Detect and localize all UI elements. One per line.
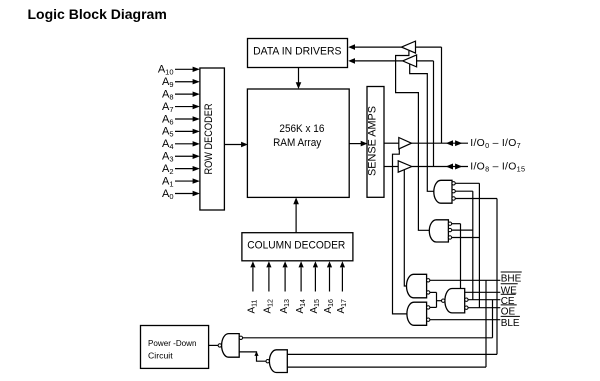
label OE active-low [501,305,517,318]
block Power-Down Circuit [141,326,209,369]
svg-text:Circuit: Circuit [148,351,173,361]
wire arrow DATA IN DRIVERS to RAM [296,68,302,90]
gate U3 2-input inverted-input AND [407,274,430,298]
title Logic Block Diagram [28,7,167,22]
gate U6 power-down AND inverted output [218,334,242,358]
block RAM Array 256K x 16 [247,89,349,197]
svg-text:SENSE AMPS: SENSE AMPS [367,106,379,176]
address input A17 [336,261,348,313]
address input A7 [162,101,200,114]
gate U1 3-input inverted-input AND [434,180,455,203]
address input A15 [309,261,321,313]
wire CE label to U5 input2 [468,299,500,301]
wire U2 input2 to CE trunk [452,229,473,231]
node W vertical joining U3 U4 and U5 output [436,292,438,307]
buffer B1 I/O upper byte [384,138,411,149]
wire T2 enable from gate U1 output [410,64,434,191]
wire U1 input2 to CE trunk [455,190,473,192]
svg-text:Power -Down: Power -Down [148,338,197,348]
address input A14 [295,261,307,313]
address input A12 [263,261,275,313]
address input A2 [162,163,200,176]
wire arrow RAM to SENSE AMPS [349,141,367,147]
svg-text:DATA IN DRIVERS: DATA IN DRIVERS [253,45,341,57]
buffer T1 data-in upper [348,41,441,53]
block DATA IN DRIVERS [248,39,348,68]
label BHE active-low [501,272,522,285]
wire U1 input3 to BLE trunk [455,198,497,200]
wire trunk WE to U2 [460,224,462,289]
svg-text:BHE: BHE [501,274,522,285]
wire riser CE to power-down line 1 [492,300,494,338]
svg-text:COLUMN DECODER: COLUMN DECODER [247,239,345,251]
wire BHE from U3 input1 [430,279,500,281]
svg-text:BLE: BLE [501,318,520,329]
wire U6 input1 power-down line 1 [243,337,493,339]
address input A1 [162,175,200,188]
wire U7 input2 power-down line 3 [287,366,486,368]
address input A11 [247,261,259,313]
wire OE label to U5 input3 [468,307,500,309]
gate U7 power-down AND inverted output [266,350,287,373]
gate U2 3-input inverted-input AND [429,220,451,242]
svg-text:OE: OE [501,307,516,318]
wire U1 input1 to OE trunk [455,182,479,184]
wire arrow COLUMN DECODER to RAM [293,197,299,232]
label I/O0-I/O7 [470,138,521,150]
gate U4 2-input inverted-input AND [407,302,430,325]
address input A13 [279,261,291,313]
wire B1 enable from gate U4 output [393,149,407,314]
address input A8 [162,88,200,101]
address input A9 [162,76,200,89]
label BLE active-low [501,316,520,329]
wire arrow ROW DECODER to RAM [224,142,248,148]
wire trunk BLE to U1 and power-down [496,199,498,355]
wire U6 input2 from U7 output [239,351,266,361]
address input A5 [162,126,200,139]
wire U2 input1 to WE trunk [452,223,461,225]
gate U5 3-input AND inverted output [442,289,469,313]
address input A0 [162,188,200,201]
address input A16 [323,261,335,313]
wire riser BHE to power-down line 3 [485,280,487,367]
block COLUMN DECODER [242,233,353,261]
buffer T2 data-in lower [348,55,433,67]
wire I/O line lower with bidirectional arrows [412,164,468,170]
label WE active-low [501,284,518,297]
block SENSE AMPS [367,87,385,198]
wire T1 input from I/O upper line [441,47,443,143]
svg-text:Logic Block Diagram: Logic Block Diagram [28,7,167,22]
wire I/O line upper with bidirectional arrows [411,140,468,146]
svg-text:RAM Array: RAM Array [273,137,322,149]
address input A10 [158,64,200,77]
buffer B2 I/O lower byte [384,161,412,172]
wire U7 input1 power-down line 2 [287,353,497,355]
address input A3 [162,151,200,164]
wire U5 output to node W [437,300,442,302]
wire U2 input3 to OE trunk [452,237,480,239]
wire U3 input2 to node W [430,291,437,293]
svg-text:256K x 16: 256K x 16 [279,123,324,135]
svg-text:ROW DECODER: ROW DECODER [203,103,215,174]
wire T1 enable from gate U2 output [396,51,430,231]
address input A4 [162,138,200,151]
wire trunk CE to U1/U2 [472,191,474,300]
wire B2 enable from gate U3 output [404,169,406,286]
wire BLE from U4 input2 [430,319,500,321]
wire T2 input from I/O lower line [433,61,435,167]
block ROW DECODER [200,68,225,210]
wire WE label to U5 input1 [465,291,501,293]
wire U6 output to Power-Down Circuit [209,344,219,346]
label CE active-low [501,294,516,307]
svg-text:I/O0 – I/O7: I/O0 – I/O7 [470,138,521,150]
wire U4 input1 to node W [430,306,437,308]
address input A6 [162,113,200,126]
label I/O8-I/O15 [470,162,525,174]
wire trunk OE to U1/U2 [478,183,480,307]
